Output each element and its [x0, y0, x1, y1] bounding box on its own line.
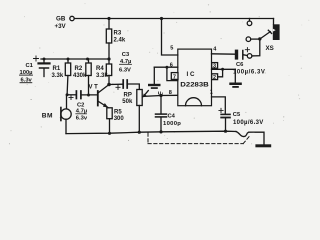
node collector junction [107, 83, 111, 87]
svg-text:6.3V: 6.3V [119, 67, 131, 73]
ground (pin 3) [229, 69, 242, 88]
node +3V label [55, 16, 67, 30]
svg-text:C6: C6 [236, 62, 244, 68]
svg-text:R2: R2 [75, 66, 83, 72]
pin 4 [212, 53, 235, 55]
svg-text:5: 5 [170, 45, 173, 51]
capacitor C4 [156, 96, 167, 132]
node rail-R3 junction [107, 17, 110, 20]
node RP wiper / C4 junction [159, 94, 162, 97]
node mic/R1/C2 junction [66, 93, 69, 96]
svg-text:3: 3 [213, 64, 216, 70]
resistor R3 [106, 19, 111, 60]
svg-text:100µ/6.3V: 100µ/6.3V [233, 120, 264, 126]
svg-text:300: 300 [114, 116, 125, 122]
capacitor C3 [109, 80, 139, 90]
svg-text:i: i [162, 92, 163, 97]
node C2/R2 base junction [87, 94, 90, 97]
wire shield (dashed) [148, 133, 250, 144]
svg-text:8: 8 [169, 90, 172, 96]
svg-text:2.4k: 2.4k [114, 38, 126, 44]
svg-text:C3: C3 [122, 52, 130, 58]
svg-text:V T: V T [89, 85, 99, 91]
wire filtered supply node [41, 58, 109, 60]
svg-text:XS: XS [266, 45, 274, 52]
svg-text:C2: C2 [77, 102, 84, 108]
svg-text:50k: 50k [122, 99, 133, 105]
svg-text:1: 1 [210, 90, 213, 96]
capacitor C2 [67, 91, 97, 100]
svg-text:GB: GB [56, 16, 66, 23]
svg-text:C1: C1 [26, 63, 34, 69]
svg-text:R1: R1 [53, 66, 61, 72]
transistor VT [98, 85, 109, 108]
pin 2 [212, 74, 218, 80]
pin 1 [210, 90, 213, 96]
resistor R5 [107, 108, 112, 134]
microphone BM [61, 95, 71, 134]
resistor R2 [86, 59, 91, 95]
svg-text:RP: RP [124, 93, 132, 99]
resistor R4 [106, 59, 111, 85]
svg-text:7: 7 [173, 75, 176, 81]
pin 3 [212, 68, 236, 70]
wire ground rail [66, 131, 236, 133]
jack XS [246, 19, 279, 59]
svg-text:3.3k: 3.3k [52, 73, 64, 79]
svg-text:430k: 430k [73, 73, 87, 79]
wire squiggle to ground [236, 132, 264, 145]
op-amp U1 (IC D2283B) [178, 49, 212, 106]
svg-text:2: 2 [213, 75, 216, 81]
svg-text:1000p: 1000p [163, 121, 181, 127]
capacitor C5 [219, 108, 231, 131]
capacitor C1 [34, 56, 50, 77]
svg-text:6.3v: 6.3v [76, 116, 88, 122]
pin 6 [154, 66, 178, 68]
capacitor C6 [235, 48, 250, 60]
svg-text:6: 6 [170, 63, 173, 69]
svg-text:R4: R4 [96, 66, 104, 72]
node ui / pin 8 [158, 90, 172, 96]
svg-text:R3: R3 [114, 31, 122, 37]
ground (pins 6,7) [148, 67, 161, 89]
node rail-pin5 junction [160, 17, 163, 20]
svg-text:C4: C4 [168, 113, 176, 119]
svg-text:C5: C5 [233, 112, 241, 118]
potentiometer RP [137, 90, 178, 132]
resistor R1 [65, 59, 70, 95]
pin 7 [167, 67, 178, 80]
svg-text:+3V: +3V [55, 23, 67, 30]
svg-text:BM: BM [42, 113, 53, 120]
svg-text:100µ/6.3V: 100µ/6.3V [233, 69, 265, 75]
wire top supply rail [74, 18, 273, 20]
svg-text:D2283B: D2283B [180, 81, 209, 88]
ground (main, right) [255, 144, 271, 147]
svg-text:I C: I C [187, 71, 195, 78]
battery terminal GB [70, 16, 74, 20]
pin 5 [162, 19, 178, 56]
svg-text:3.3k: 3.3k [96, 73, 108, 79]
svg-text:R5: R5 [114, 110, 122, 116]
